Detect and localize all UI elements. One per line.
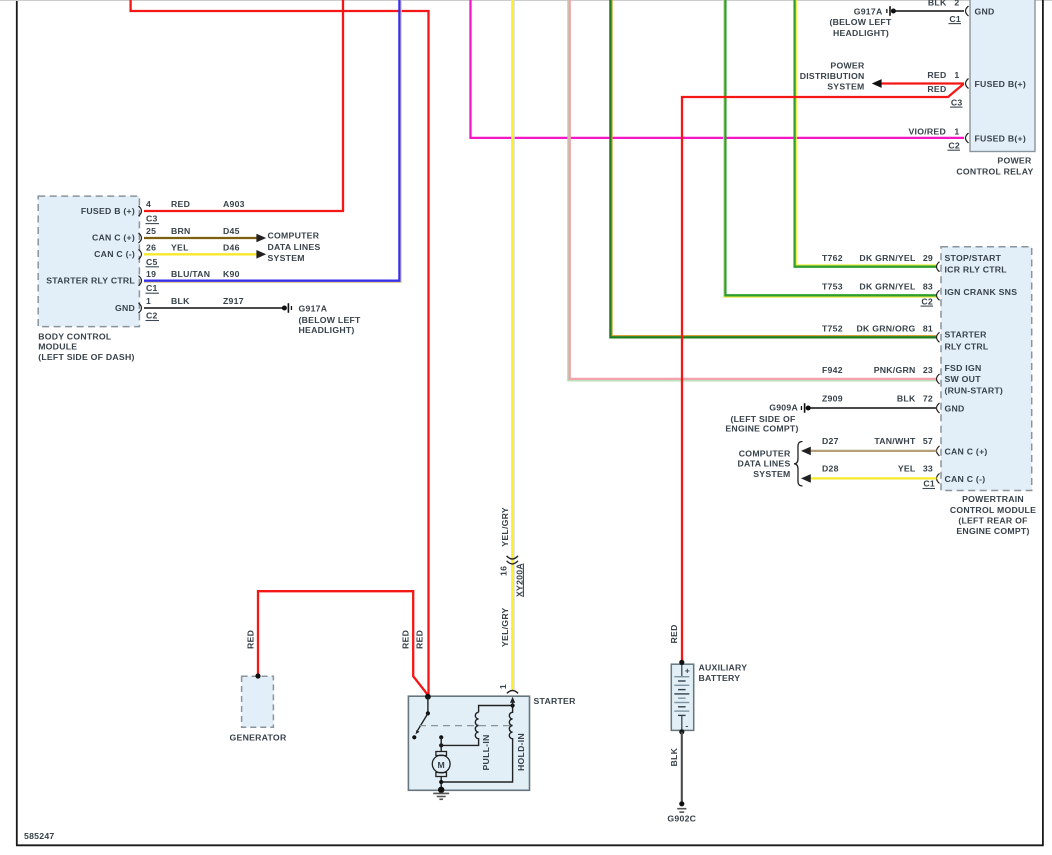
svg-text:ICR RLY CTRL: ICR RLY CTRL <box>945 264 1008 274</box>
PCM labels T752 row <box>822 324 933 334</box>
relay pin label GND <box>975 7 995 17</box>
svg-text:GND: GND <box>115 303 135 313</box>
svg-text:23: 23 <box>923 365 933 375</box>
svg-text:1: 1 <box>954 70 959 80</box>
wire TAN/WHT D27 <box>810 450 937 452</box>
AUXILIARY BATTERY box <box>671 664 693 730</box>
battery plates <box>674 663 689 731</box>
wire RED feed from top to starter stud <box>131 0 429 694</box>
svg-text:SYSTEM: SYSTEM <box>827 82 864 92</box>
svg-text:T753: T753 <box>822 282 843 292</box>
svg-text:SW OUT: SW OUT <box>945 374 982 384</box>
svg-text:57: 57 <box>923 436 933 446</box>
wire BLK battery to ground <box>681 732 683 804</box>
computer data lines system text right <box>737 448 790 478</box>
wire BLK Z909 <box>810 407 937 409</box>
svg-text:C3: C3 <box>951 97 963 107</box>
wire RED generator branch <box>258 591 428 695</box>
svg-text:YEL/GRY: YEL/GRY <box>500 607 510 647</box>
svg-text:IGN CRANK SNS: IGN CRANK SNS <box>945 287 1018 297</box>
svg-text:FUSED B(+): FUSED B(+) <box>975 79 1027 89</box>
svg-text:-: - <box>685 720 688 730</box>
svg-text:T762: T762 <box>822 253 843 263</box>
ground G902C text <box>667 813 696 823</box>
starter hold-in coil <box>441 706 512 783</box>
GENERATOR caption <box>230 732 287 742</box>
svg-text:FUSED B (+): FUSED B (+) <box>81 206 135 216</box>
battery terminal dots <box>679 660 684 735</box>
wire YEL/GRY to starter terminal 1 <box>511 0 513 691</box>
wire YEL D28 <box>810 477 937 479</box>
svg-text:DATA LINES: DATA LINES <box>268 242 321 252</box>
svg-text:STOP/START: STOP/START <box>945 253 1002 263</box>
svg-text:TAN/WHT: TAN/WHT <box>874 436 916 446</box>
svg-text:C1: C1 <box>923 479 935 489</box>
PCM pin bracket 83 <box>937 290 940 300</box>
brace for computer data lines <box>794 442 803 487</box>
PCM labels T753 row <box>822 282 933 292</box>
svg-text:G917A: G917A <box>299 303 328 313</box>
svg-text:GND: GND <box>945 404 965 414</box>
BCM pin bracket GND <box>139 303 142 313</box>
starter pull-in coil <box>441 706 512 746</box>
PCM pin bracket 57 <box>937 446 940 456</box>
BCM pin label CAN C (-) <box>94 249 135 259</box>
PCM connector C2 label <box>921 296 934 306</box>
top hairline <box>0 0 1052 2</box>
wire BLU/TAN K90 tan tracer <box>144 0 401 282</box>
BCM connector C1 label <box>146 283 160 293</box>
BCM pin 26 YEL D46 labels <box>146 243 240 253</box>
computer data lines system text left <box>268 231 321 264</box>
BCM pin bracket STARTER RLY CTRL <box>139 276 142 286</box>
PCM labels D27 row <box>822 436 933 446</box>
relay BLK 2 labels <box>928 0 960 8</box>
wire PNK/GRN green tracer <box>568 0 937 381</box>
svg-text:PULL-IN: PULL-IN <box>481 734 491 770</box>
POWERTRAIN CONTROL MODULE caption <box>950 494 1036 536</box>
battery plus sign <box>685 665 690 675</box>
battery minus sign <box>685 720 688 730</box>
PCM pin label STARTER RLY CTRL <box>945 330 989 352</box>
svg-text:19: 19 <box>146 269 156 279</box>
svg-text:C5: C5 <box>146 257 158 267</box>
svg-text:G909A: G909A <box>769 403 798 413</box>
BCM connector C2 label <box>146 311 160 321</box>
PCM labels D28 row <box>822 463 933 473</box>
PCM labels Z909 row <box>822 394 933 404</box>
STARTER box <box>408 696 529 790</box>
wire YEL/GRY gray tracer <box>513 0 515 690</box>
GENERATOR box <box>242 676 274 727</box>
starter switch <box>412 697 430 740</box>
BCM box <box>38 196 139 327</box>
wire DK GRN/YEL T762 to PCM STOP/START ICR RLY CTRL <box>795 0 937 267</box>
ground G909A <box>801 403 811 413</box>
BCM pin bracket FUSED B(+) <box>139 206 142 216</box>
svg-text:POWER: POWER <box>830 61 865 71</box>
label YEL/GRY lower <box>500 607 510 647</box>
label YEL/GRY upper <box>500 507 510 547</box>
svg-text:RED: RED <box>669 624 679 643</box>
svg-text:RED: RED <box>415 630 425 649</box>
svg-text:CAN C (+): CAN C (+) <box>945 446 988 456</box>
wire DK GRN/ORG orange tracer <box>612 0 936 336</box>
arrow BRN to computer data lines <box>256 234 266 243</box>
wire RED A903 from BCM FUSED B(+) to top <box>144 0 343 211</box>
svg-text:D45: D45 <box>223 226 240 236</box>
PCM box <box>941 247 1032 491</box>
svg-text:C1: C1 <box>949 14 961 24</box>
PCM pin bracket 33 <box>937 473 940 483</box>
page frame left border <box>16 1 18 845</box>
svg-text:(BELOW LEFT: (BELOW LEFT <box>829 17 892 27</box>
relay RED 1 labels top <box>927 70 959 80</box>
arrow D28 to computer data lines <box>801 474 811 483</box>
PCM pin label CAN C (+) <box>945 446 988 456</box>
svg-text:RED: RED <box>927 70 946 80</box>
BCM pin 25 BRN D45 labels <box>146 226 240 236</box>
svg-text:FUSED B(+): FUSED B(+) <box>975 134 1027 144</box>
svg-text:COMPUTER: COMPUTER <box>739 448 791 458</box>
PCM labels T762 row <box>822 253 933 263</box>
wire DK GRN/ORG T752 to PCM STARTER RLY CTRL <box>610 0 936 337</box>
label 1 starter terminal <box>498 684 508 689</box>
svg-text:YEL: YEL <box>171 243 189 253</box>
label RED starter branch left <box>401 630 411 649</box>
svg-text:D27: D27 <box>822 436 839 446</box>
starter terminal arrow into coils <box>510 697 515 708</box>
svg-text:2: 2 <box>954 0 959 8</box>
relay connector C3 label <box>950 97 963 107</box>
svg-text:RED: RED <box>401 630 411 649</box>
wire DK GRN/YEL T753 yellow tracer <box>724 0 937 297</box>
svg-text:A903: A903 <box>223 199 245 209</box>
BCM pin label CAN C (+) <box>92 232 135 242</box>
svg-text:BATTERY: BATTERY <box>699 673 741 683</box>
page frame bottom border <box>16 844 1044 846</box>
power distribution system text <box>800 61 865 92</box>
svg-text:G902C: G902C <box>667 813 696 823</box>
svg-text:C2: C2 <box>921 296 933 306</box>
BCM pin label FUSED B (+) <box>81 206 135 216</box>
svg-text:K90: K90 <box>223 269 240 279</box>
svg-text:DK GRN/YEL: DK GRN/YEL <box>859 253 916 263</box>
svg-text:C2: C2 <box>146 311 158 321</box>
label HOLD-IN <box>516 733 526 771</box>
svg-text:(BELOW LEFT: (BELOW LEFT <box>299 315 362 325</box>
svg-text:BLK: BLK <box>171 296 190 306</box>
BCM pin 4 RED A903 labels <box>146 199 245 209</box>
starter mechanical link dashed <box>419 725 511 727</box>
svg-text:T752: T752 <box>822 324 843 334</box>
svg-text:HEADLIGHT): HEADLIGHT) <box>833 28 889 38</box>
svg-text:SYSTEM: SYSTEM <box>268 253 305 263</box>
relay RED label bottom <box>927 84 946 94</box>
svg-text:CAN C (+): CAN C (+) <box>92 232 135 242</box>
starter stud junction dot <box>425 694 431 700</box>
label 16 gauge <box>499 566 509 576</box>
relay pin bracket FUSED B(+) C2 <box>966 133 969 143</box>
starter terminal connector arc <box>507 691 518 694</box>
page frame right border <box>1042 0 1044 845</box>
svg-text:YEL/GRY: YEL/GRY <box>500 507 510 547</box>
svg-text:STARTER RLY CTRL: STARTER RLY CTRL <box>46 275 135 285</box>
wire BLK relay GND <box>894 10 965 12</box>
svg-text:Z909: Z909 <box>822 394 843 404</box>
wire RED branch to power distribution system with arrow <box>872 79 964 88</box>
PCM pin bracket 29 <box>937 262 940 272</box>
svg-text:VIO/RED: VIO/RED <box>909 127 946 137</box>
relay VIO/RED 1 labels <box>909 127 960 137</box>
svg-text:ENGINE COMPT): ENGINE COMPT) <box>956 526 1029 536</box>
BCM pin 1 BLK Z917 labels <box>146 296 244 306</box>
POWER CONTROL RELAY box <box>970 0 1035 152</box>
svg-text:CONTROL RELAY: CONTROL RELAY <box>956 166 1033 176</box>
svg-text:DK GRN/ORG: DK GRN/ORG <box>857 324 916 334</box>
svg-text:C2: C2 <box>948 140 960 150</box>
label BLK battery ground wire <box>669 747 679 766</box>
svg-text:RLY CTRL: RLY CTRL <box>945 341 989 351</box>
svg-text:RED: RED <box>245 630 255 649</box>
ground G909A text <box>725 403 798 434</box>
wire VIO/RED to POWER CONTROL RELAY FUSED B(+) C2 <box>471 0 965 138</box>
svg-text:1: 1 <box>954 127 959 137</box>
label XY200A <box>515 563 525 597</box>
PCM pin label FSD IGN SW OUT (RUN-START) <box>945 363 1004 395</box>
svg-text:STARTER: STARTER <box>945 330 988 340</box>
svg-text:GENERATOR: GENERATOR <box>230 732 287 742</box>
svg-text:BODY CONTROL: BODY CONTROL <box>38 331 112 341</box>
relay pin bracket GND C1 <box>966 6 969 16</box>
arrow D27 to computer data lines <box>801 447 811 456</box>
diagram number 585247 <box>24 831 55 841</box>
svg-text:AUXILIARY: AUXILIARY <box>699 663 748 673</box>
svg-text:RED: RED <box>927 84 946 94</box>
generator terminal dot <box>255 673 260 678</box>
svg-text:CAN C (-): CAN C (-) <box>94 249 135 259</box>
svg-text:CONTROL MODULE: CONTROL MODULE <box>950 505 1036 515</box>
svg-text:M: M <box>437 760 445 770</box>
svg-text:(LEFT SIDE OF DASH): (LEFT SIDE OF DASH) <box>38 352 134 362</box>
PCM pin label STOP/START ICR RLY CTRL <box>945 253 1008 275</box>
ground G902C <box>677 801 686 812</box>
svg-text:25: 25 <box>146 226 156 236</box>
ground G917A text at BCM <box>299 303 362 335</box>
PCM labels F942 row <box>822 365 933 375</box>
relay pin bracket FUSED B(+) C3 <box>966 79 969 89</box>
svg-text:C1: C1 <box>146 283 158 293</box>
svg-text:29: 29 <box>923 253 933 263</box>
svg-text:POWERTRAIN: POWERTRAIN <box>962 494 1024 504</box>
svg-text:BLK: BLK <box>928 0 947 8</box>
svg-text:G917A: G917A <box>854 6 883 16</box>
wire BLU/TAN K90 from BCM STARTER RLY CTRL to top <box>144 0 399 281</box>
svg-text:HOLD-IN: HOLD-IN <box>516 733 526 771</box>
relay connector C2 label <box>948 140 961 150</box>
svg-text:ENGINE COMPT): ENGINE COMPT) <box>725 423 798 433</box>
svg-text:DISTRIBUTION: DISTRIBUTION <box>800 71 865 81</box>
wire RED from relay FUSED B(+) C3 down to auxiliary battery <box>682 84 964 662</box>
PCM pin bracket 72 <box>937 403 940 413</box>
wire BRN D45 <box>144 237 258 239</box>
label RED generator wire <box>245 630 255 649</box>
svg-text:PNK/GRN: PNK/GRN <box>874 365 916 375</box>
svg-text:HEADLIGHT): HEADLIGHT) <box>299 325 355 335</box>
starter motor stub dots <box>439 735 443 751</box>
svg-text:26: 26 <box>146 243 156 253</box>
svg-text:16: 16 <box>499 566 509 576</box>
svg-text:SYSTEM: SYSTEM <box>753 469 790 479</box>
svg-text:1: 1 <box>498 684 508 689</box>
BCM connector C3 label <box>146 214 160 224</box>
svg-text:4: 4 <box>146 199 151 209</box>
wire YEL D46 <box>144 253 258 255</box>
BCM pin bracket CAN C (+) <box>139 233 142 243</box>
svg-text:D28: D28 <box>822 463 839 473</box>
POWER CONTROL RELAY caption <box>956 156 1033 177</box>
relay connector C1 label <box>949 14 962 24</box>
svg-text:D46: D46 <box>223 243 240 253</box>
svg-text:(LEFT REAR OF: (LEFT REAR OF <box>958 516 1027 526</box>
label RED starter feed right <box>415 630 425 649</box>
BCM pin label GND <box>115 303 135 313</box>
svg-text:BLK: BLK <box>897 394 916 404</box>
svg-text:BLK: BLK <box>669 747 679 766</box>
wire DK GRN/YEL T753 to PCM IGN CRANK SNS <box>725 0 936 295</box>
svg-text:STARTER: STARTER <box>534 696 577 706</box>
BCM pin 19 BLU/TAN K90 labels <box>146 269 240 279</box>
svg-text:FSD IGN: FSD IGN <box>945 363 982 373</box>
svg-text:72: 72 <box>923 394 933 404</box>
label RED battery wire <box>669 624 679 643</box>
svg-text:1: 1 <box>146 296 151 306</box>
svg-text:RED: RED <box>171 199 190 209</box>
ground G917A at BCM <box>282 303 292 313</box>
svg-text:+: + <box>685 665 690 675</box>
svg-text:DK GRN/YEL: DK GRN/YEL <box>859 282 916 292</box>
PCM pin label CAN C (-) <box>945 474 986 484</box>
svg-text:C3: C3 <box>146 214 158 224</box>
svg-text:Z917: Z917 <box>223 296 244 306</box>
PCM pin bracket 81 <box>937 332 940 342</box>
svg-text:CAN C (-): CAN C (-) <box>945 474 986 484</box>
starter motor M <box>432 752 450 790</box>
BODY CONTROL MODULE caption <box>38 331 134 361</box>
PCM connector C1 label <box>923 479 936 489</box>
PCM pin label GND <box>945 404 965 414</box>
STARTER caption <box>534 696 577 706</box>
wire DK GRN/YEL T762 yellow tracer <box>796 0 936 265</box>
svg-text:POWER: POWER <box>997 156 1032 166</box>
svg-text:BLU/TAN: BLU/TAN <box>171 269 210 279</box>
svg-text:YEL: YEL <box>898 463 916 473</box>
svg-text:DATA LINES: DATA LINES <box>737 458 790 468</box>
svg-text:585247: 585247 <box>24 831 55 841</box>
ground G917A text at relay <box>829 6 892 37</box>
svg-text:F942: F942 <box>822 365 843 375</box>
starter internal ground <box>433 787 449 800</box>
svg-text:BRN: BRN <box>171 226 191 236</box>
arrow YEL to computer data lines <box>256 250 266 259</box>
svg-text:GND: GND <box>975 7 995 17</box>
wire PNK/GRN F942 to PCM FSD IGN SW OUT <box>570 0 937 379</box>
label PULL-IN <box>481 734 491 770</box>
BCM connector C5 label <box>146 257 160 267</box>
svg-text:COMPUTER: COMPUTER <box>268 231 320 241</box>
relay pin label FUSED B(+) C3 <box>975 79 1027 89</box>
inline connector XY200A on YEL/GRY <box>507 556 518 564</box>
ground G917A at relay <box>886 6 896 16</box>
svg-text:(RUN-START): (RUN-START) <box>945 385 1004 395</box>
PCM pin bracket 23 <box>937 374 940 384</box>
AUXILIARY BATTERY caption <box>699 663 748 683</box>
PCM pin label IGN CRANK SNS <box>945 287 1018 297</box>
svg-text:MODULE: MODULE <box>38 341 77 351</box>
svg-text:81: 81 <box>923 324 933 334</box>
svg-text:33: 33 <box>923 463 933 473</box>
wire BLK Z917 <box>144 307 284 309</box>
svg-text:83: 83 <box>923 282 933 292</box>
BCM pin label STARTER RLY CTRL <box>46 275 135 285</box>
relay pin label FUSED B(+) C2 <box>975 134 1027 144</box>
BCM pin bracket CAN C (-) <box>139 249 142 259</box>
